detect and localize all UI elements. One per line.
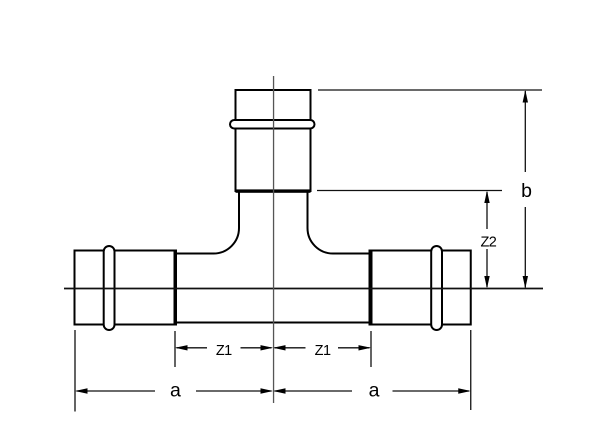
svg-text:a: a: [369, 380, 380, 402]
svg-text:a: a: [170, 380, 181, 402]
svg-text:Z1: Z1: [315, 343, 331, 359]
svg-text:Z2: Z2: [480, 234, 496, 250]
svg-text:Z1: Z1: [216, 343, 232, 359]
svg-text:b: b: [521, 180, 532, 202]
